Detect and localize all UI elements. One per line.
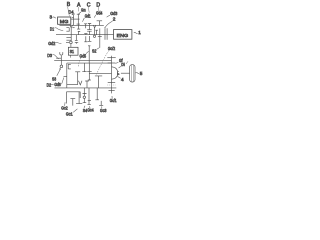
svg-text:Gd3: Gd3 — [110, 11, 117, 16]
svg-text:D2: D2 — [47, 82, 52, 87]
label Gd5 — [78, 51, 89, 67]
gear below shaft A x78.6 — [77, 25, 80, 29]
svg-text:Gd5: Gd5 — [80, 53, 87, 58]
gear bar x87 — [85, 81, 89, 88]
label S3 with arrow — [52, 68, 61, 81]
label Gm — [79, 8, 86, 15]
svg-text:Gd4: Gd4 — [96, 11, 103, 16]
gear Gc2 — [70, 99, 75, 106]
shaft A — [60, 24, 104, 26]
svg-text:Gc1: Gc1 — [66, 112, 73, 117]
gear T1 — [82, 63, 86, 72]
gear Gc3 — [99, 101, 103, 106]
shift fork S2 — [93, 25, 96, 35]
svg-text:Gd1: Gd1 — [85, 13, 91, 18]
gear Gd4 — [97, 21, 103, 26]
dog clutch D4 — [72, 15, 74, 26]
label D1 — [50, 26, 63, 31]
engine input shaft — [56, 34, 114, 36]
label D3 — [47, 53, 58, 59]
D5 tick — [117, 71, 119, 73]
shaft E lower line — [67, 62, 112, 64]
flywheel / damper double line — [105, 28, 107, 40]
label 4 arrow — [117, 76, 124, 83]
small cap right of rod — [72, 27, 74, 29]
label 2 — [105, 17, 116, 29]
svg-text:Gc4: Gc4 — [87, 108, 94, 113]
axle link — [121, 72, 130, 74]
label 5 — [136, 71, 143, 77]
svg-text:Gc/2: Gc/2 — [108, 46, 116, 51]
label Gc4 — [87, 106, 94, 112]
label D5 — [119, 62, 126, 68]
svg-text:D3: D3 — [47, 53, 52, 58]
synchronizer S1 box — [68, 47, 78, 57]
shaft G right — [89, 73, 111, 75]
gear Gd1 mesh main — [87, 24, 92, 30]
differential bell — [112, 67, 118, 79]
svg-text:S1: S1 — [70, 49, 75, 54]
svg-text:Gm: Gm — [81, 8, 86, 13]
label Gc/2 — [96, 46, 115, 75]
label D4 — [69, 9, 75, 14]
gear Gd1 mesh left bar — [84, 24, 87, 29]
svg-text:Gd6: Gd6 — [54, 82, 61, 87]
sleeve node — [70, 41, 73, 44]
label Gd2 — [48, 41, 61, 46]
label S4 — [83, 106, 88, 113]
label Gf — [116, 58, 124, 63]
svg-text:D5: D5 — [121, 62, 125, 67]
svg-text:Gc3: Gc3 — [100, 108, 107, 113]
svg-text:C: C — [87, 2, 91, 8]
node A label — [77, 2, 81, 11]
gearbox frame left — [66, 63, 68, 88]
shift fork S1 — [70, 25, 73, 41]
engine ENG box — [114, 30, 142, 40]
svg-text:D1: D1 — [50, 26, 55, 31]
gear column x89.3 — [87, 63, 92, 80]
svg-text:2: 2 — [113, 17, 116, 23]
final drive caps — [107, 57, 115, 59]
gear Gc1 — [76, 92, 82, 104]
gear bar x89 — [88, 88, 92, 105]
label Gc1 — [66, 109, 78, 117]
MG axis shaft — [71, 18, 80, 20]
node B label — [67, 2, 71, 16]
svg-text:Gd2: Gd2 — [48, 41, 55, 46]
svg-text:Gc2: Gc2 — [61, 106, 68, 111]
gear bar x89.5 below input — [88, 36, 92, 41]
gear bar x97 — [95, 88, 99, 100]
gear T3 — [95, 76, 102, 88]
fork on bottom shaft — [79, 81, 83, 85]
label D2 — [47, 82, 54, 87]
label Gd4 — [94, 11, 102, 18]
dog clutch D1 upper — [66, 28, 69, 32]
stray slant — [126, 61, 128, 64]
svg-text:S2: S2 — [92, 49, 97, 54]
shaft E — [54, 59, 111, 61]
dog D3 tick — [56, 57, 61, 59]
gear on input right — [95, 30, 98, 35]
motor-generator MG box — [50, 15, 71, 25]
dog clutch D1 lower ticks — [66, 38, 71, 43]
gear pair on input shaft left — [75, 35, 78, 41]
gear Gd3 — [98, 28, 102, 47]
label Gd1 — [83, 13, 92, 21]
label S2 — [92, 48, 99, 54]
frame inner bottom — [67, 84, 78, 86]
lower-left frame — [67, 92, 81, 104]
gear bar x85.8 below input — [84, 36, 87, 42]
sleeve node S3 — [60, 65, 63, 68]
svg-text:MG: MG — [60, 19, 69, 24]
svg-text:Gc/1: Gc/1 — [110, 98, 117, 103]
label Gc3 — [100, 106, 107, 113]
svg-text:S3: S3 — [52, 76, 57, 81]
svg-text:ENG: ENG — [117, 33, 129, 39]
label Gc2 — [61, 102, 68, 111]
label Gd6 — [54, 78, 63, 87]
svg-text:1: 1 — [138, 30, 141, 35]
label Gd3 — [107, 11, 118, 17]
dog bracket right of S3 — [68, 64, 71, 69]
final drive column — [111, 56, 113, 94]
gear Gm — [77, 14, 80, 25]
sleeve node S2 — [93, 35, 95, 37]
gear T4 — [75, 72, 80, 85]
node D label — [96, 2, 100, 12]
wheel — [130, 65, 135, 82]
svg-text:3: 3 — [50, 15, 53, 20]
svg-text:B: B — [67, 2, 71, 8]
svg-text:4: 4 — [121, 77, 124, 83]
dog clutch D2 tick — [64, 76, 67, 78]
rod x89.2 to frame — [88, 46, 90, 63]
sleeve node S4 — [83, 96, 85, 98]
node C label — [87, 2, 91, 12]
label Gc/1 — [110, 96, 117, 103]
bottom shaft F — [55, 87, 117, 89]
shift fork S3 — [60, 52, 63, 65]
shift rod S4 — [83, 88, 87, 96]
svg-text:D4: D4 — [69, 9, 74, 14]
svg-text:5: 5 — [140, 71, 143, 77]
